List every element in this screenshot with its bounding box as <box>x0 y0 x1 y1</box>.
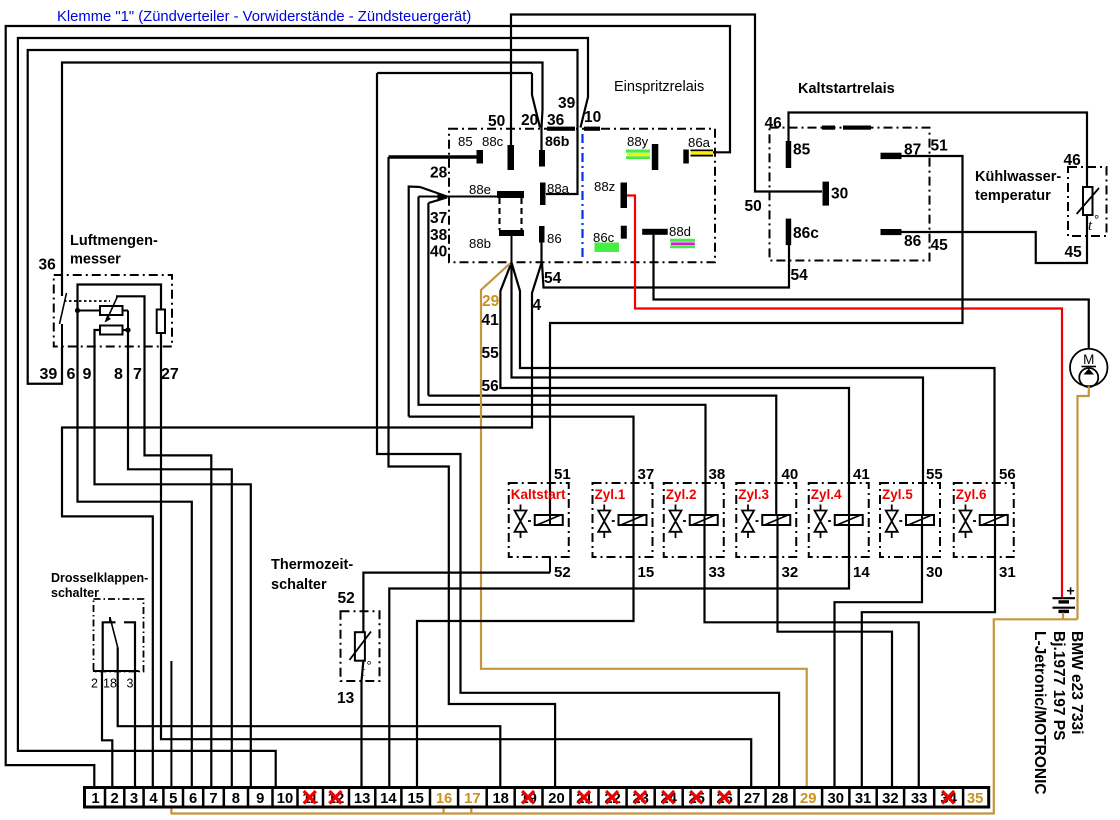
svg-text:5: 5 <box>169 791 177 807</box>
svg-text:10: 10 <box>584 109 601 126</box>
wire pin 8 <box>123 330 232 788</box>
svg-text:86: 86 <box>547 231 562 246</box>
pin 85 Kaltstartrelais <box>786 141 792 168</box>
svg-text:37: 37 <box>430 210 447 227</box>
svg-text:86b: 86b <box>545 134 570 150</box>
svg-text:3: 3 <box>130 791 138 807</box>
coil Zyl.3 <box>762 515 790 525</box>
thick dash segment Einspritz top <box>547 127 575 131</box>
wire 88z red to battery plus <box>627 196 1062 598</box>
injector Zyl.1 box <box>593 483 653 557</box>
injector Zyl.5 box <box>880 483 940 557</box>
Drossel bottom bar <box>93 670 139 672</box>
svg-text:18: 18 <box>492 791 508 807</box>
pin 88e bar <box>497 191 524 198</box>
wire Zyl.5 bottom to terminal 30 <box>835 525 923 788</box>
svg-text:55: 55 <box>926 466 943 483</box>
pin 85 Einspritzrelais <box>477 150 484 164</box>
svg-text:51: 51 <box>931 138 949 155</box>
svg-text:Klemme "1" (Zündverteiler - Vo: Klemme "1" (Zündverteiler - Vorwiderstän… <box>57 9 471 25</box>
svg-text:Luftmengen-: Luftmengen- <box>70 233 158 249</box>
divider 30|31 <box>848 788 851 808</box>
divider 4|5 <box>162 788 165 808</box>
svg-text:41: 41 <box>482 312 500 329</box>
wire frame 4 (Luft pin 36 to 86b) <box>62 63 543 297</box>
divider 12|13 <box>348 788 351 808</box>
svg-text:27: 27 <box>161 366 179 383</box>
svg-text:33: 33 <box>911 791 927 807</box>
svg-text:Zyl.2: Zyl.2 <box>666 487 697 502</box>
wire 28 from relay 85 to terminal 20 <box>389 155 477 159</box>
junction dot B <box>125 327 130 332</box>
wire Zyl.3 bottom to terminal 32 <box>778 525 893 788</box>
resistor R2 Luft <box>100 326 123 335</box>
valve symbol Zyl.4 <box>820 505 822 512</box>
wire Zyl.6 through coil <box>994 515 996 525</box>
svg-text:28: 28 <box>430 165 448 182</box>
svg-text:56: 56 <box>999 466 1016 483</box>
svg-text:36: 36 <box>39 257 57 274</box>
wire Zyl.5 through coil <box>921 515 923 525</box>
pin 30 bar <box>823 182 830 206</box>
red X over terminal 25 <box>690 791 702 804</box>
wiper wire to pin 7 <box>116 296 211 787</box>
injector Kaltstart box <box>509 483 569 557</box>
wire 51 (87 to Kaltstart valve) <box>550 156 963 515</box>
svg-text:Bj.1977 197 PS: Bj.1977 197 PS <box>1050 631 1067 740</box>
tan stub terminal 17 <box>470 807 472 814</box>
battery plates <box>1053 597 1076 599</box>
divider 11|12 <box>322 788 325 808</box>
svg-text:86c: 86c <box>793 225 819 242</box>
svg-text:40: 40 <box>782 466 799 483</box>
svg-text:13: 13 <box>354 791 370 807</box>
divider 18|19 <box>513 788 516 808</box>
svg-text:schalter: schalter <box>51 586 99 600</box>
relay box Kaltstartrelais <box>770 128 930 261</box>
valve symbol Zyl.3 <box>747 505 749 512</box>
svg-text:32: 32 <box>882 791 898 807</box>
divider 1|2 <box>104 788 107 808</box>
wire pump to tan net <box>1078 386 1089 619</box>
wire Zyl.6 bottom to terminal 31 <box>862 525 995 788</box>
svg-text:54: 54 <box>544 270 562 287</box>
svg-text:33: 33 <box>709 564 726 581</box>
pin 88a bar <box>540 183 546 206</box>
switch box Thermozeitschalter <box>341 611 380 681</box>
Drossel contact right <box>124 622 135 671</box>
coil Kaltstart <box>535 515 563 525</box>
red X over terminal 19 <box>522 791 534 804</box>
svg-text:52: 52 <box>554 564 571 581</box>
divider 27|28 <box>764 788 767 808</box>
divider 22|23 <box>625 788 628 808</box>
divider 10|11 <box>296 788 299 808</box>
red X over terminal 23 <box>634 791 646 804</box>
relay box Einspritzrelais <box>449 129 715 263</box>
svg-text:40: 40 <box>430 244 447 261</box>
svg-text:88d: 88d <box>669 224 691 239</box>
pin 88b bar <box>499 230 524 236</box>
svg-text:45: 45 <box>931 237 949 254</box>
wire fan 29 orange (to terminal 29) <box>481 264 807 788</box>
sensor box Luftmengenmesser <box>54 275 172 347</box>
wire 88d to fuel pump <box>654 235 1089 349</box>
injector Zyl.2 box <box>664 483 724 557</box>
wire Zyl.2 bottom to terminal 33 <box>705 525 919 788</box>
svg-text:29: 29 <box>800 791 816 807</box>
tan stub terminal 16 <box>443 807 445 814</box>
svg-text:2: 2 <box>91 677 98 691</box>
divider 26|27 <box>737 788 740 808</box>
red X over terminal 21 <box>578 791 590 804</box>
svg-text:°: ° <box>1094 212 1099 227</box>
thermistor R Thermo <box>355 632 365 661</box>
svg-text:32: 32 <box>782 564 799 581</box>
svg-text:BMW e23 733i: BMW e23 733i <box>1068 631 1085 734</box>
red X over terminal 26 <box>718 791 730 804</box>
red X over terminal 22 <box>606 791 618 804</box>
svg-text:15: 15 <box>407 791 423 807</box>
divider 24|25 <box>681 788 684 808</box>
wire Thermo 52 to Kaltstart valve 52 <box>363 573 550 633</box>
divider 16|17 <box>457 788 460 808</box>
svg-text:86: 86 <box>904 233 922 250</box>
svg-text:17: 17 <box>464 791 480 807</box>
svg-text:temperatur: temperatur <box>975 188 1051 204</box>
svg-text:Zyl.4: Zyl.4 <box>811 487 842 502</box>
svg-text:88e: 88e <box>469 182 491 197</box>
wire Kaltstart valve bottom <box>549 557 551 573</box>
svg-text:M: M <box>1083 352 1094 367</box>
pin 86c Einspritzrelais with green patch <box>621 226 627 239</box>
pin 86c Kaltstartrelais <box>786 219 792 246</box>
divider 3|4 <box>142 788 145 808</box>
svg-text:20: 20 <box>548 791 564 807</box>
potentiometer R1 Luft <box>100 306 123 315</box>
svg-text:36: 36 <box>547 112 565 129</box>
svg-text:85: 85 <box>458 134 473 149</box>
wire pin 6 <box>78 311 192 788</box>
injector Zyl.4 box <box>809 483 869 557</box>
wire 88b to box bottom <box>511 236 513 262</box>
wire Drossel 3 to terminal 3 <box>134 671 136 788</box>
svg-text:+: + <box>1067 583 1075 599</box>
wire fan 55 (to Zyl.5 top) <box>512 263 924 515</box>
wire 88e to funnel <box>419 196 498 198</box>
coil Zyl.2 <box>690 515 718 525</box>
junction dot A <box>75 308 80 313</box>
pin 88y with green-yellow-green stripes <box>652 144 659 170</box>
wire net 50 top (to 88c and Kaltstart 30) <box>511 15 822 192</box>
divider 21|22 <box>597 788 600 808</box>
wire battery minus tan <box>1062 613 1064 620</box>
svg-text:50: 50 <box>488 113 505 130</box>
svg-text:14: 14 <box>380 791 397 807</box>
fuel pump motor circle <box>1070 349 1108 387</box>
svg-text:46: 46 <box>765 115 783 132</box>
svg-text:Drosselklappen-: Drosselklappen- <box>51 571 148 585</box>
svg-text:20: 20 <box>521 112 538 129</box>
switch box Drosselklappenschalter <box>94 599 144 672</box>
divider 17|18 <box>485 788 488 808</box>
wire Zyl.1 through coil <box>633 515 635 525</box>
svg-text:9: 9 <box>83 366 92 383</box>
red X over terminal 11 <box>304 791 316 804</box>
svg-text:27: 27 <box>744 791 760 807</box>
wire frame 1 (terminal 1 to 86a) <box>6 26 730 788</box>
svg-text:Zyl.3: Zyl.3 <box>738 487 769 502</box>
funnel arrowhead at 88e <box>438 193 448 202</box>
svg-text:8: 8 <box>114 366 123 383</box>
wire Zyl.4 through coil <box>848 515 850 525</box>
divider 15|16 <box>429 788 432 808</box>
svg-text:39: 39 <box>558 95 576 112</box>
divider 34|35 <box>962 788 965 808</box>
svg-text:86c: 86c <box>593 230 615 245</box>
wire 45 (86 to Kuehlwasser 45) <box>902 215 1088 263</box>
svg-text:37: 37 <box>638 466 655 483</box>
wire Thermo 13 to terminal 13 <box>362 661 364 788</box>
svg-text:3: 3 <box>127 677 134 691</box>
divider 19|20 <box>541 788 544 808</box>
wiper arrow <box>106 296 117 321</box>
svg-text:schalter: schalter <box>271 577 327 593</box>
svg-text:7: 7 <box>133 366 142 383</box>
tan stub terminal 5 <box>170 807 172 815</box>
pin 86 Einspritzrelais <box>539 226 545 243</box>
divider 7|8 <box>223 788 226 808</box>
svg-text:Kaltstart: Kaltstart <box>511 487 566 502</box>
svg-text:Einspritzrelais: Einspritzrelais <box>614 79 704 95</box>
divider 5|6 <box>182 788 185 808</box>
pin 88z bar <box>621 183 628 209</box>
svg-text:88c: 88c <box>482 134 504 149</box>
svg-text:18: 18 <box>103 677 117 691</box>
svg-text:Zyl.1: Zyl.1 <box>595 487 626 502</box>
valve symbol Zyl.1 <box>603 505 605 512</box>
wire frame 3 (Luft pin 39 to 88a) <box>28 50 578 384</box>
wire Kaltstart through coil <box>549 515 551 525</box>
wire funnel branch 40 (to Zyl.3 top) <box>428 396 776 515</box>
divider 2|3 <box>123 788 126 808</box>
wire Drossel 2 to terminal 2 <box>102 671 112 788</box>
svg-text:1: 1 <box>91 791 99 807</box>
svg-text:56: 56 <box>482 378 500 395</box>
wire funnel branch 38 (to Zyl.2 top) <box>428 198 447 204</box>
svg-text:2: 2 <box>111 791 119 807</box>
divider 32|33 <box>903 788 906 808</box>
coil Zyl.6 <box>980 515 1008 525</box>
red X over terminal 24 <box>662 791 674 804</box>
wire fan 56 (to Zyl.6 top) <box>512 263 995 516</box>
divider 33|34 <box>933 788 936 808</box>
svg-text:38: 38 <box>709 466 726 483</box>
svg-text:30: 30 <box>926 564 943 581</box>
Drossel blade <box>111 619 118 647</box>
svg-text:46: 46 <box>1064 152 1082 169</box>
svg-text:4: 4 <box>533 297 542 314</box>
svg-text:Zyl.6: Zyl.6 <box>956 487 987 502</box>
svg-text:28: 28 <box>772 791 788 807</box>
divider 14|15 <box>400 788 403 808</box>
svg-text:L-Jetronic/MOTRONIC: L-Jetronic/MOTRONIC <box>1031 631 1048 795</box>
svg-text:10: 10 <box>277 791 293 807</box>
divider 13|14 <box>374 788 377 808</box>
svg-text:Zyl.5: Zyl.5 <box>882 487 913 502</box>
svg-text:9: 9 <box>256 791 264 807</box>
relay coil 88e-88b dashed <box>498 198 500 230</box>
svg-text:14: 14 <box>853 564 870 581</box>
svg-text:51: 51 <box>554 466 571 483</box>
coil Zyl.4 <box>835 515 863 525</box>
Drossel contact left <box>103 622 116 671</box>
svg-text:86a: 86a <box>688 135 711 150</box>
valve symbol Kaltstart <box>520 505 522 512</box>
svg-text:88z: 88z <box>594 179 615 194</box>
valve symbol Zyl.2 <box>675 505 677 512</box>
wire fan 41 (to Zyl.4 top) <box>500 263 849 516</box>
svg-text:88a: 88a <box>547 181 570 196</box>
thermistor R Kuehlwasser <box>1083 187 1093 215</box>
wire funnel branch 37 (to Zyl.1 top) <box>420 187 447 197</box>
svg-text:7: 7 <box>209 791 217 807</box>
svg-text:45: 45 <box>1065 244 1083 261</box>
wire frame 5 (terminal 28 line to 86b/36) <box>532 73 540 128</box>
black stub terminal 5 <box>170 661 172 788</box>
dotted link to wiper <box>64 300 110 302</box>
wire Zyl.2 through coil <box>704 515 706 525</box>
svg-text:15: 15 <box>638 564 655 581</box>
wire 4 (Einspritz 86 to terminal 4) <box>62 243 542 788</box>
divider 29|30 <box>821 788 824 808</box>
svg-text:52: 52 <box>338 590 355 607</box>
pin 86 Kaltstartrelais <box>881 229 902 235</box>
svg-text:29: 29 <box>482 293 500 310</box>
inner wire top <box>78 285 162 311</box>
injector Zyl.6 box <box>954 483 1014 557</box>
svg-text:6: 6 <box>189 791 197 807</box>
svg-text:30: 30 <box>831 186 848 203</box>
divider 23|24 <box>653 788 656 808</box>
sensor box Kuehlwassertemperatur <box>1068 167 1107 236</box>
pin 88c <box>508 145 515 170</box>
thick dash segment Kaltstart top <box>822 126 835 130</box>
svg-text:Thermozeit-: Thermozeit- <box>271 557 353 573</box>
valve symbol Zyl.6 <box>965 505 967 512</box>
coil Zyl.5 <box>906 515 934 525</box>
svg-text:31: 31 <box>855 791 871 807</box>
wire 46 to Kuehlwasser <box>789 113 1088 189</box>
pin 87 bar <box>881 153 902 159</box>
wire Kaltstart top <box>549 515 551 525</box>
pin 86b <box>539 150 545 167</box>
svg-text:messer: messer <box>70 252 121 268</box>
svg-text:85: 85 <box>793 142 811 159</box>
wire Zyl.4 bottom to terminal 14 <box>389 525 849 788</box>
wire pin 9 <box>95 330 251 788</box>
resistor R3 Luft vertical <box>157 310 165 334</box>
svg-text:55: 55 <box>482 345 500 362</box>
coil Zyl.1 <box>619 515 647 525</box>
red X over terminal 34 <box>942 791 954 804</box>
divider 28|29 <box>793 788 796 808</box>
divider 20|21 <box>569 788 572 808</box>
red X over terminal 12 <box>330 791 342 804</box>
svg-text:50: 50 <box>745 198 762 215</box>
divider 25|26 <box>709 788 712 808</box>
switch blade Luft <box>60 293 67 324</box>
wire Drossel 18 to terminal 18 <box>118 647 501 787</box>
pin 86a with yellow stripe wire <box>683 150 689 164</box>
wire frame 2 (terminal 10 to pin 10 diagonal) <box>18 38 588 788</box>
svg-text:88y: 88y <box>627 134 649 149</box>
svg-text:38: 38 <box>430 227 448 244</box>
wire Zyl.1 bottom to terminal 15 <box>417 525 634 788</box>
svg-text:Kaltstartrelais: Kaltstartrelais <box>798 81 895 97</box>
svg-text:Kühlwasser-: Kühlwasser- <box>975 169 1061 185</box>
blue dash-dot separator <box>581 134 583 257</box>
valve symbol Zyl.5 <box>891 505 893 512</box>
svg-text:54: 54 <box>791 267 809 284</box>
svg-text:35: 35 <box>967 791 983 807</box>
svg-text:39: 39 <box>40 366 58 383</box>
svg-text:41: 41 <box>853 466 870 483</box>
wire pin 27 to terminal 27 <box>161 333 751 788</box>
divider 9|10 <box>271 788 274 808</box>
svg-text:30: 30 <box>828 791 844 807</box>
terminal strip outline <box>85 788 989 808</box>
svg-text:88b: 88b <box>469 236 491 251</box>
wire 54 Einspritz to Kaltstart 86c <box>542 245 789 288</box>
svg-text:13: 13 <box>337 690 355 707</box>
svg-text:4: 4 <box>149 791 158 807</box>
svg-text:16: 16 <box>436 791 452 807</box>
wire tan bus to terminals <box>171 619 1077 813</box>
divider 6|7 <box>202 788 205 808</box>
label BMW e23 733i rotated <box>1068 631 1085 734</box>
svg-text:31: 31 <box>999 564 1016 581</box>
divider 31|32 <box>875 788 878 808</box>
pump triangle <box>1084 369 1095 375</box>
wire Zyl.3 through coil <box>777 515 779 525</box>
divider 8|9 <box>247 788 250 808</box>
svg-text:°: ° <box>367 658 372 673</box>
svg-text:8: 8 <box>232 791 240 807</box>
pin 88d bar with green-magenta-green stripes <box>642 229 668 235</box>
injector Zyl.3 box <box>736 483 796 557</box>
svg-text:6: 6 <box>67 366 76 383</box>
